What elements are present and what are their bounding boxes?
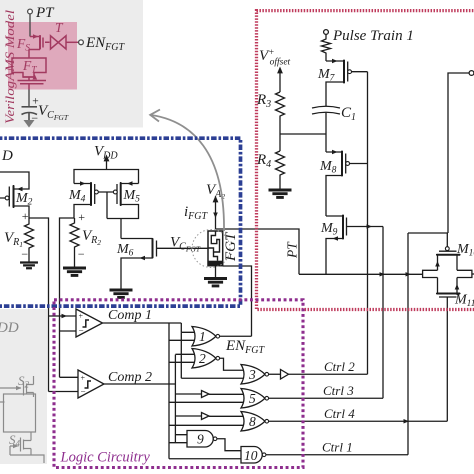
wire gate mirror M4-M5: [98, 192, 113, 219]
transistor M2 (PMOS): [0, 185, 14, 208]
transistor below F_T (NMOS, maroon): [18, 75, 47, 90]
gate 8 (NOR): [241, 412, 265, 432]
wire Ctrl 3: [269, 397, 383, 399]
transistor M11 (NMOS horizontal, transmission gate bottom): [438, 278, 458, 294]
wire FGT top / V_A2 arrow: [215, 201, 217, 229]
wire node VR1 to comparator riser: [29, 218, 78, 392]
transmission gate right terminal bracket: [457, 270, 472, 277]
arrow M6 source (points left): [140, 256, 146, 260]
svg-text:3: 3: [248, 367, 256, 382]
wire Comp2 output: [104, 383, 175, 385]
bold channel bars overlay: [14, 60, 461, 294]
bubble g5: [265, 396, 269, 400]
transistor S4: [21, 438, 24, 452]
wire box to capacitor: [28, 90, 30, 107]
svg-text:5: 5: [249, 391, 256, 406]
transistor F_S (PMOS, maroon): [29, 34, 50, 56]
wire bus stub g5 bottom: [169, 401, 245, 403]
gate bubble M5: [113, 190, 117, 194]
transmission gate left terminal bracket: [423, 270, 438, 277]
svg-text:Comp 1: Comp 1: [108, 308, 152, 323]
node Pulse Train 1 terminal: [324, 30, 329, 35]
transistor M5 (PMOS): [117, 182, 139, 206]
transistor M6 (NMOS): [121, 238, 160, 259]
wire Ctrl 2: [289, 373, 368, 375]
svg-text:+: +: [78, 312, 83, 321]
comparator Comp 2: [78, 370, 104, 398]
wire bus stub g9 bottom: [169, 442, 194, 444]
arrow S4 gate: [13, 444, 19, 448]
wire M10 gate top loop to terminal: [408, 73, 469, 233]
wire g9 to g10: [217, 439, 243, 451]
svg-text:Comp 2: Comp 2: [108, 370, 152, 385]
wire left stub: [0, 401, 5, 403]
wire bus stub g10 bottom: [169, 458, 245, 460]
svg-text:VerilogAMS Model: VerilogAMS Model: [2, 10, 17, 124]
bubble g9: [213, 437, 217, 441]
arrow V_offset (up): [278, 68, 283, 74]
svg-text:+: +: [21, 209, 29, 223]
junction arrow PT rail 2: [406, 272, 412, 276]
svg-text:10: 10: [244, 448, 258, 463]
red dashed box (pulse train circuit): [257, 11, 474, 310]
gate bubble M4: [95, 190, 99, 194]
junction arrow comp1 plus: [62, 314, 68, 318]
dashed circle around FGT: [192, 230, 230, 268]
resistor V_R1: [25, 218, 34, 262]
bubble g2: [216, 356, 220, 360]
svg-text:Ctrl 2: Ctrl 2: [324, 359, 355, 374]
node PT terminal: [28, 9, 33, 14]
gate bubble M10: [445, 247, 449, 251]
gate 1 (NOR): [192, 327, 216, 347]
ground (gray arrow down): [24, 120, 35, 128]
resistor R3: [276, 92, 285, 151]
comparator Comp 1: [76, 309, 103, 337]
blue dashed box (analog bias circuit): [0, 138, 241, 306]
wire bus stub buffer8: [175, 415, 201, 417]
wire g3 to buffer: [269, 373, 281, 375]
buffer after g3: [281, 370, 289, 380]
wire node VR2 to comparator riser: [60, 218, 79, 377]
svg-text:+: +: [80, 374, 85, 383]
transistor S2: [24, 382, 27, 396]
wire R3/R4 node to C1 bottom: [280, 133, 326, 135]
wire Ctrl1 riser / M10 gate: [407, 233, 409, 455]
wire buffer8 to g8: [209, 415, 245, 417]
wire M5 drain to M6: [120, 219, 122, 239]
wire g1 output EN: [220, 335, 252, 337]
gray background box bottom-left (S2/S4 region): [0, 309, 47, 464]
ground V_R1: [20, 263, 38, 269]
squiggle source impedance: [322, 34, 331, 61]
pink box: [8, 22, 77, 90]
buffer before g8: [202, 413, 210, 420]
wire VDD rail mid: [74, 170, 139, 184]
box outline S4: [4, 394, 36, 432]
arrow V_DD mid: [104, 156, 109, 162]
wire EN_FGT from FGT to logic: [223, 266, 252, 336]
arrow S2 gate: [16, 386, 22, 390]
svg-text:D: D: [1, 148, 13, 164]
arrow M5 top (points left): [127, 181, 133, 185]
gate 9 (NAND): [187, 431, 213, 448]
ground M6: [110, 290, 133, 297]
wire PT rail: [299, 273, 423, 275]
svg-text:Pulse Train 1: Pulse Train 1: [332, 28, 414, 44]
svg-text:FGT: FGT: [223, 231, 239, 262]
wire V_C_FGT to FGT: [160, 247, 208, 249]
capacitor C1: [312, 106, 340, 114]
transistor M9 (NMOS): [326, 215, 383, 240]
bold channel bar F_S: [39, 36, 41, 50]
arrow M9 source (left): [333, 236, 339, 240]
wire FGT top to PT riser: [216, 229, 300, 274]
svg-text:Logic Circuitry: Logic Circuitry: [60, 450, 151, 466]
svg-text:8: 8: [249, 414, 256, 429]
svg-text:2: 2: [199, 351, 206, 366]
wire logic bus v1: [168, 323, 170, 459]
svg-text:−: −: [77, 247, 85, 261]
bubble g10: [262, 453, 266, 457]
transistor M10 (PMOS horizontal, transmission gate top): [436, 251, 461, 255]
svg-text:Ctrl 4: Ctrl 4: [324, 406, 355, 421]
transistor M8 (PMOS): [326, 151, 368, 177]
wire M9 gate to Ctrl3: [382, 227, 384, 399]
arrow M4 top (points right): [80, 181, 86, 185]
wire bus stub g3 bottom: [181, 332, 245, 378]
bubble g8: [265, 419, 269, 423]
transmission gate T (bowtie): [51, 36, 79, 49]
gray background box top-left (VerilogAMS model region): [0, 0, 143, 128]
gate bubble M2: [5, 196, 9, 200]
svg-text:PT: PT: [285, 241, 300, 259]
wire V_DD arrow mid: [106, 160, 108, 170]
wire buffer5 to g5: [209, 393, 245, 395]
wire bus stub g2 top: [175, 353, 196, 355]
transistor M7 (PMOS): [326, 60, 368, 84]
wire bus stub g9 top: [175, 434, 194, 436]
arrow M7 source (right): [332, 59, 338, 63]
arrow M2 top (points left): [17, 187, 23, 191]
bubble g3: [265, 372, 269, 376]
wire g2 to g3: [220, 358, 245, 370]
gate bubble M8: [346, 162, 350, 166]
wire Ctrl 4: [269, 420, 448, 422]
transistor M4 (PMOS): [74, 182, 95, 206]
gate bubble M7: [348, 70, 352, 74]
wire bus stub buffer5: [175, 393, 201, 395]
wire gate bus Ctrl2: [367, 72, 369, 375]
gate 5 (NOR): [241, 389, 265, 409]
buffer before g5: [202, 391, 210, 398]
gate 3 (NOR): [241, 365, 265, 385]
gate 10 (NAND): [241, 447, 262, 464]
bubble g1: [216, 334, 220, 338]
node terminal top right: [469, 71, 474, 76]
ground V_R2: [63, 268, 86, 275]
svg-text:+: +: [78, 210, 86, 224]
arrow M8 source (right): [332, 150, 338, 154]
wire bus stub g1 bottom: [169, 339, 196, 341]
junction arrow PT rail 1: [380, 272, 386, 276]
ground FGT: [215, 266, 217, 278]
gate 2 (NOR): [192, 349, 216, 369]
wire V_offset arrow: [279, 72, 281, 92]
wire logic bus v2: [174, 355, 176, 443]
resistor R4: [276, 151, 285, 189]
junction arrow M9 gate crossing: [367, 224, 373, 228]
svg-text:Ctrl 1: Ctrl 1: [322, 440, 353, 455]
node EN_FGT terminal: [79, 40, 84, 45]
svg-text:PT: PT: [35, 5, 55, 21]
resistor V_R2: [70, 218, 79, 267]
wire bottom: [10, 446, 44, 463]
purple dashed box (logic circuitry): [54, 300, 303, 468]
wire bus stub g2 bottom: [169, 361, 196, 363]
wire Comp1 output: [103, 323, 197, 332]
arrow M11 bulk (up): [455, 284, 460, 290]
ground R4: [269, 190, 292, 197]
wire VDD rail left: [0, 172, 29, 189]
arrow M10 bulk (up): [435, 261, 440, 267]
svg-text:−: −: [21, 247, 29, 261]
capacitor V_C_FGT: [22, 107, 38, 120]
FGT device box: [208, 231, 223, 266]
svg-text:9: 9: [197, 432, 204, 447]
arrow i_FGT (down): [213, 213, 218, 219]
floating gate device F_T (maroon notched box): [12, 56, 46, 81]
gray feedback arc arrow: [151, 115, 224, 231]
svg-text:1: 1: [199, 329, 206, 344]
svg-text:DD: DD: [0, 320, 19, 336]
wire PT to F_S: [29, 14, 31, 37]
svg-text:Ctrl 3: Ctrl 3: [323, 383, 354, 398]
wire bus stub g8 bottom: [169, 424, 245, 426]
wire Ctrl 1: [266, 454, 408, 456]
junction arrow Ctrl4 crossing: [404, 419, 410, 423]
wire S2 gate lead: [0, 387, 21, 389]
